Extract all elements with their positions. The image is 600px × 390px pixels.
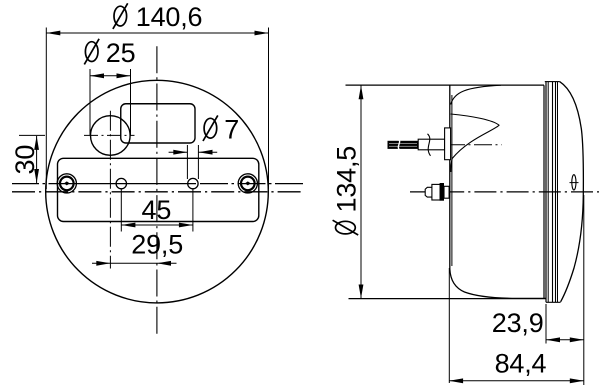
dimension Ø 7 extension line right [197,145,199,179]
upper stud boss [445,128,451,160]
lens rim line 5 [557,82,559,303]
dimension Ø 140,6 line [46,32,268,34]
centerline horizontal screw axis front view [12,183,303,185]
lens screw head ellipse [572,175,576,190]
lamp axis centerline side view [410,191,599,193]
svg-text:30: 30 [10,145,40,175]
cable entry horizontal crosshair [84,134,135,136]
upper stud thread [388,141,419,149]
dimension Ø 140,6 extension line right [268,28,270,190]
lower stud tip [425,187,432,197]
lens joint line [543,85,545,298]
svg-text:45: 45 [142,195,172,225]
dimension Ø 134,5 arrow top [359,85,364,99]
dimension Ø 7 arrow right [199,150,213,155]
housing back edge inner [451,95,453,266]
dimension 23,9 extension line left [545,304,547,344]
upper stud thread break mark [398,139,401,152]
dimension 84,4 arrow left [449,378,463,383]
dimension 23,9 arrow left [546,337,560,342]
dimension 30 line [36,136,38,183]
reflector beak curve [451,114,499,172]
svg-text:29,5: 29,5 [131,230,183,260]
dimension 23,9 arrow right [570,337,584,342]
dimension Ø 140,6 arrow right [255,31,269,36]
housing back edge outer with bottom corner [450,85,546,298]
dimension Ø 25 arrow left [90,73,104,78]
dimension Ø 25 arrow right [117,73,131,78]
centerline horizontal lamp axis front view [12,191,303,193]
dimension 45 arrow right [179,223,193,228]
lamp lens outer circle [46,80,269,303]
upper stud centerline [420,144,502,146]
upper stud shank [418,139,444,150]
dimension 30 arrow bottom [34,169,39,183]
svg-text:7: 7 [224,115,239,145]
dimension Ø 140,6 arrow left [46,31,60,36]
dimension 45 line [121,224,192,226]
lens rim line 1 [545,82,547,303]
screw right outer serrated flange [238,174,257,193]
dimension Ø 134,5 symbol [333,220,359,235]
upper stud thread lines [389,142,417,144]
dimension 23,9 / 84,4 extension line right [583,195,585,385]
dimension Ø 25 extension line right [130,69,132,136]
dimension Ø 140,6 extension line left [45,28,47,190]
mounting hole right [188,178,198,188]
dimension 45 arrow left [121,223,135,228]
lens rim top edge [545,81,560,83]
dimension Ø 134,5 arrow bottom [359,285,364,299]
dimension Ø 7 symbol [203,115,218,141]
dimension 23,9 line [546,339,584,341]
dimension 45 extension line right [192,189,194,232]
centerline vertical front view [156,46,158,336]
lens screw head axis tick [570,182,579,184]
svg-text:25: 25 [106,38,136,68]
dimension Ø 25 line [90,75,131,77]
lower stud washer [440,183,444,201]
lens rim line 4 [555,82,557,303]
dimension 29,5 arrow right [157,261,171,266]
dimension 29,5 arrow left [96,261,110,266]
cable entry circle Ø25 [91,116,131,156]
svg-text:134,5: 134,5 [332,146,362,213]
cable entry vertical crosshair / extension line [109,111,111,269]
lens outer profile [560,82,584,302]
screw right center diamond [245,181,251,185]
dimension Ø 25 symbol [84,39,99,65]
lower stud nut [432,184,440,200]
dimension 84,4 arrow right [570,378,584,383]
lower stud collar [444,186,449,198]
dimension Ø 7 arrow left shaft [169,151,188,153]
lens rim bottom edge [546,301,561,303]
dimension Ø 134,5 line [360,85,362,298]
dimension 29,5 line [92,262,177,264]
dimension Ø 25 extension line left [89,69,91,136]
dimension Ø 7 arrow right shaft [198,151,217,153]
dimension 84,4 line [449,380,584,382]
lens rim line 3 [552,82,554,303]
svg-text:23,9: 23,9 [492,308,544,338]
dimension 30 extension line top [19,134,45,136]
dimension 30 arrow top [34,136,39,150]
screw left outer serrated flange [57,174,76,193]
reflector curve upper [451,85,501,104]
upper stud shank break mark [428,134,431,156]
mounting hole left [116,178,126,188]
screw left center diamond [64,181,70,185]
dimension Ø 140,6 symbol [113,3,128,29]
lens rim line 2 [547,82,549,303]
side view bottom extension line [349,298,547,300]
screw right head [241,177,255,191]
dimension 45 extension line left [120,189,122,232]
svg-text:140,6: 140,6 [136,2,203,32]
dimension Ø 7 extension line left [186,145,188,179]
screw left head [60,177,74,191]
dimension 84,4 extension line left [448,268,450,383]
connector window rounded rect [121,104,195,143]
mounting plate [58,158,259,221]
svg-text:84,4: 84,4 [495,348,547,378]
side view top edge / extension line [346,84,545,86]
dimension Ø 7 arrow left [173,150,187,155]
